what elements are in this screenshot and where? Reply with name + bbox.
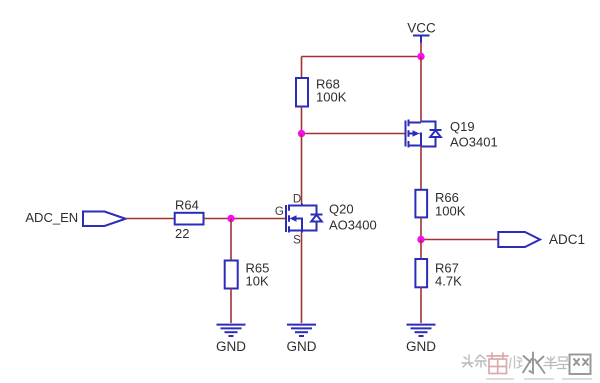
svg-text:ADC_EN: ADC_EN <box>25 210 78 225</box>
wire VCC stub to junction J1 <box>420 42 422 57</box>
svg-text:VCC: VCC <box>407 21 436 36</box>
wire J2 right to Q19 gate <box>302 133 405 135</box>
svg-text:10K: 10K <box>246 274 269 289</box>
wire R64 to junction J4 <box>204 218 232 220</box>
svg-text:GND: GND <box>216 339 246 354</box>
svg-text:D: D <box>293 194 301 206</box>
transistor Q19 (P-MOSFET AO3401) <box>406 120 442 148</box>
junction J4 <box>227 215 234 222</box>
svg-text:Q19: Q19 <box>450 119 475 134</box>
wire J3 down to R67 <box>420 240 422 260</box>
wire port ADC_EN to R64 <box>126 218 175 220</box>
port ADC_EN <box>83 212 126 227</box>
wire J4 to Q20 gate <box>231 218 285 220</box>
resistor R67 <box>415 259 427 287</box>
svg-text:R64: R64 <box>175 198 199 213</box>
svg-text:Q20: Q20 <box>329 201 354 216</box>
svg-text:G: G <box>275 206 284 218</box>
svg-text:AO3401: AO3401 <box>450 134 498 149</box>
wire R68 to junction J2 <box>301 107 303 134</box>
svg-text:GND: GND <box>406 339 436 354</box>
svg-text:100K: 100K <box>435 204 466 219</box>
resistor R64 <box>175 213 204 225</box>
wire Q19 drain down to R66 <box>420 147 422 190</box>
wire J1 left to R68 column <box>302 56 422 58</box>
watermark <box>462 353 592 381</box>
wire Q20 source to ground GND2 <box>301 233 303 324</box>
port ADC1 <box>498 232 540 247</box>
transistor Q20 (N-MOSFET AO3400) <box>286 204 323 233</box>
ground GND3 <box>407 325 436 336</box>
ground GND2 <box>287 325 316 336</box>
junction J2 <box>298 130 305 137</box>
wire R65 to ground GND1 <box>230 289 232 324</box>
svg-text:ADC1: ADC1 <box>549 232 585 247</box>
svg-text:S: S <box>293 234 301 246</box>
svg-text:AO3400: AO3400 <box>329 217 377 232</box>
wire J4 down to R65 <box>230 219 232 261</box>
svg-text:22: 22 <box>175 226 189 241</box>
svg-text:GND: GND <box>287 339 317 354</box>
resistor R68 <box>296 78 308 107</box>
junction J1 <box>417 53 424 60</box>
svg-text:100K: 100K <box>316 90 347 105</box>
ground GND1 <box>217 325 246 336</box>
resistor R66 <box>415 190 427 218</box>
resistor R65 <box>225 261 238 289</box>
svg-text:4.7K: 4.7K <box>435 274 462 289</box>
wire R67 to ground GND3 <box>420 287 422 323</box>
wire J3 right to port ADC1 <box>421 239 498 241</box>
wire J2 down to Q20 drain <box>301 134 303 204</box>
junction J3 <box>417 236 424 243</box>
wire R66 to junction J3 <box>420 217 422 239</box>
wire top corner down to R68 <box>301 57 303 79</box>
wire J1 down to Q19 source <box>420 57 422 122</box>
power port VCC <box>413 36 430 44</box>
